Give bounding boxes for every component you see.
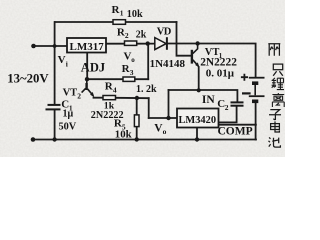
resistor R2 xyxy=(125,41,137,45)
junction Vin/C1 xyxy=(53,44,57,48)
junction LM3420 gnd/bottom xyxy=(195,137,199,141)
wire R3 rail xyxy=(87,78,148,80)
svg-text:V: V xyxy=(124,50,132,62)
wire COMP to battery minus xyxy=(219,124,256,126)
wire input lead xyxy=(34,45,68,47)
junction VT1 collector xyxy=(195,41,199,45)
resistor R5 xyxy=(134,115,139,127)
junction R2/VD node xyxy=(146,41,150,45)
svg-text:1: 1 xyxy=(120,9,124,18)
svg-text:50V: 50V xyxy=(59,121,77,132)
wire diode to battery top xyxy=(168,44,256,77)
wire LM317 ADJ down xyxy=(86,53,88,80)
annotation chinese char chi (pool/battery) xyxy=(269,137,281,147)
junction R5/bottom xyxy=(135,137,139,141)
wire IN rail xyxy=(169,90,238,101)
capacitor C2 xyxy=(231,102,244,105)
annotation chinese char li2 (leave/ion) xyxy=(272,93,284,107)
svg-text:10k: 10k xyxy=(127,9,143,20)
svg-text:2k: 2k xyxy=(136,29,147,40)
svg-text:13~20V: 13~20V xyxy=(7,72,49,86)
battery plus sign xyxy=(241,74,248,81)
wire bottom rail xyxy=(33,139,256,141)
op-amp U1 LM317 box xyxy=(67,38,106,53)
svg-text:1N4148: 1N4148 xyxy=(150,58,186,70)
svg-text:V: V xyxy=(58,54,66,66)
svg-text:LM3420: LM3420 xyxy=(179,115,217,126)
svg-text:3: 3 xyxy=(130,68,134,77)
svg-text:VD: VD xyxy=(157,26,172,37)
annotation chinese char dian (electric) xyxy=(271,121,280,132)
svg-text:1μ: 1μ xyxy=(63,109,74,120)
battery minus sign xyxy=(242,92,251,94)
svg-text:COMP: COMP xyxy=(218,126,253,138)
annotation chinese char liang (two) xyxy=(268,44,280,56)
svg-text:IN: IN xyxy=(202,94,215,106)
annotation chinese char zhi (only) xyxy=(273,64,283,76)
resistor R3 xyxy=(123,77,135,81)
wire feedback to LM3420 xyxy=(149,117,177,119)
transistor VT1 xyxy=(192,44,199,67)
wire battery bottom lead xyxy=(255,103,257,139)
junction C1/bottom xyxy=(52,137,56,141)
svg-text:2: 2 xyxy=(77,92,81,101)
junction emitter/IN xyxy=(197,88,201,92)
svg-text:0. 01μ: 0. 01μ xyxy=(206,68,235,80)
wire input vertical xyxy=(54,22,56,140)
IC U2 LM3420 box xyxy=(177,109,219,128)
svg-text:ADJ: ADJ xyxy=(81,61,105,75)
wire C2 to LM3420 xyxy=(219,107,237,123)
capacitor C1 xyxy=(46,105,61,110)
battery GB two cells xyxy=(249,78,265,102)
svg-text:10k: 10k xyxy=(115,128,132,140)
wire R1 down to VD node xyxy=(177,22,192,56)
svg-text:4: 4 xyxy=(113,85,117,94)
resistor R4 xyxy=(103,96,116,100)
svg-text:2: 2 xyxy=(225,103,229,112)
svg-text:o: o xyxy=(131,56,135,64)
wire R4 rail xyxy=(94,97,149,100)
wire R5 leads xyxy=(136,98,138,140)
diode VD xyxy=(155,37,167,50)
resistor R1 xyxy=(113,20,126,25)
wire 1.2k corner xyxy=(148,98,150,118)
wire LM3420 gnd down xyxy=(196,128,198,140)
wire top rail xyxy=(55,21,177,23)
node input terminal top xyxy=(31,44,36,49)
junction R4/R5 xyxy=(135,96,139,100)
svg-text:o: o xyxy=(163,127,167,136)
svg-text:LM317: LM317 xyxy=(70,41,105,53)
wire LM317 out xyxy=(106,43,155,45)
svg-text:i: i xyxy=(66,60,68,69)
transistor VT2 xyxy=(82,79,94,96)
wire IN down left xyxy=(168,90,170,118)
svg-text:1. 2k: 1. 2k xyxy=(136,84,157,95)
svg-text:VT: VT xyxy=(63,88,78,99)
node input terminal bottom xyxy=(31,137,36,142)
junction IN/feedback xyxy=(166,116,170,120)
junction ADJ/R3 xyxy=(85,77,89,81)
annotation chinese char li (lithium) xyxy=(272,78,284,90)
svg-text:2: 2 xyxy=(125,31,129,40)
wire VT1 emitter down xyxy=(198,67,200,90)
annotation chinese char zi (child/ion) xyxy=(269,110,281,120)
wire Vo node vertical xyxy=(147,44,149,80)
